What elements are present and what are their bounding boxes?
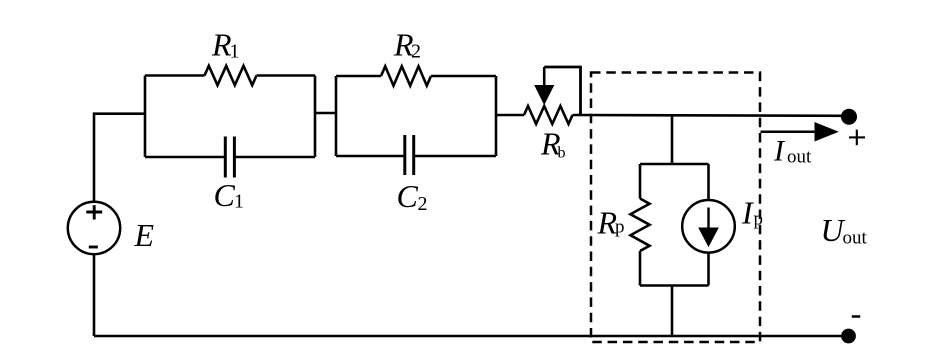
svg-text:I: I	[741, 195, 754, 231]
wire: Rb to output terminal	[573, 114, 850, 117]
E minus mark	[89, 246, 98, 249]
svg-text:p: p	[754, 208, 764, 229]
E plus mark	[86, 211, 102, 214]
node: loop2 left edge	[335, 76, 338, 156]
wire: E bottom	[93, 255, 96, 337]
svg-text:1: 1	[230, 41, 240, 63]
svg-text:b: b	[558, 144, 566, 161]
capacitor C2	[336, 155, 405, 158]
arrow Iout	[761, 131, 821, 134]
resistor Rp	[639, 164, 642, 199]
capacitor C1	[145, 156, 225, 159]
svg-text:C: C	[214, 177, 236, 213]
node: loop2 right edge	[495, 76, 498, 156]
node: inner loop bottom edge	[640, 284, 709, 287]
wire: loop1 to loop2	[315, 112, 336, 115]
dashed box (photodiode model)	[591, 73, 760, 343]
wire: loop2 to Rb	[496, 114, 524, 117]
svg-text:I: I	[773, 135, 786, 168]
node: loop1 left edge	[144, 76, 147, 158]
node: loop1 right edge	[314, 76, 317, 158]
svg-text:E: E	[134, 217, 155, 253]
wire: top tap into box	[671, 115, 674, 164]
minus output mark	[852, 315, 860, 318]
wire: E top to loop1	[94, 114, 145, 202]
svg-text:1: 1	[234, 191, 244, 213]
Rb wiper arrow	[543, 67, 546, 90]
svg-text:out: out	[787, 147, 812, 168]
wire: bottom tap	[671, 286, 674, 337]
terminal dot +	[841, 109, 857, 125]
Rb bypass wire	[544, 67, 580, 115]
svg-text:2: 2	[411, 41, 421, 63]
terminal dot -	[841, 329, 856, 344]
plus output mark	[849, 136, 865, 138]
current source Ip	[707, 164, 710, 200]
Ip arrow	[707, 208, 709, 234]
svg-text:2: 2	[418, 193, 428, 215]
svg-text:out: out	[843, 228, 868, 249]
resistor R2	[336, 75, 381, 78]
resistor R1	[145, 74, 205, 77]
svg-text:C: C	[397, 178, 419, 214]
voltage source E	[68, 202, 120, 254]
svg-text:p: p	[615, 217, 625, 238]
node: inner loop top edge	[640, 163, 709, 166]
rheostat Rb	[524, 106, 573, 124]
wire: bottom rail	[94, 335, 849, 338]
